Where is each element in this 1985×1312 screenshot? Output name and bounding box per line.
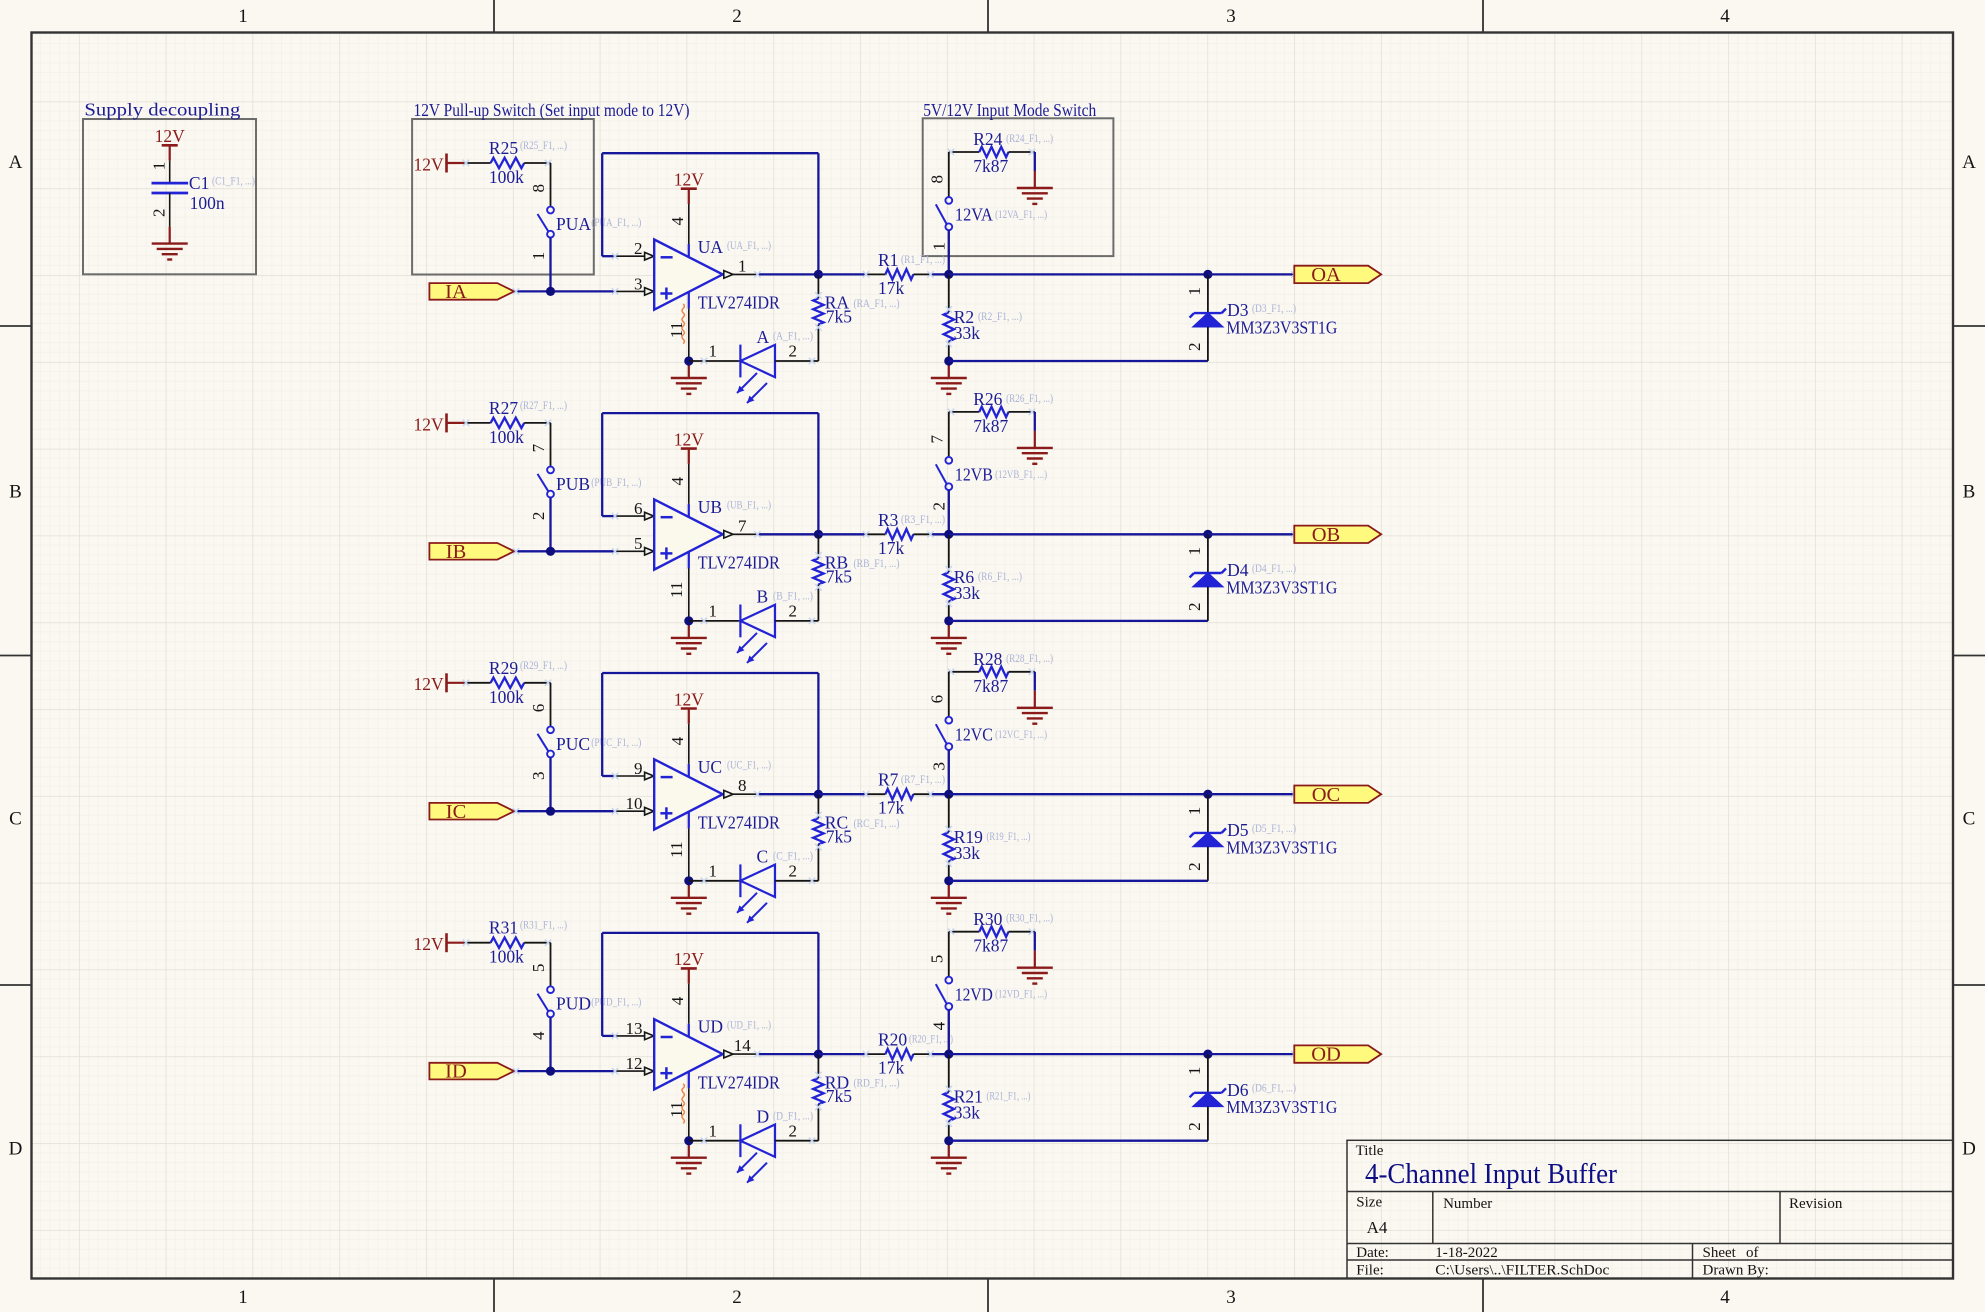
svg-text:(RB_F1, ...): (RB_F1, ...) xyxy=(854,556,900,570)
junction: pin 11 / diode / ground xyxy=(684,876,693,885)
svg-text:D: D xyxy=(757,1107,770,1127)
svg-text:1: 1 xyxy=(708,602,717,621)
svg-text:1: 1 xyxy=(529,252,548,261)
svg-text:R20: R20 xyxy=(878,1030,907,1050)
svg-text:(R24_F1, ...): (R24_F1, ...) xyxy=(1006,131,1053,145)
UB pin 4 wire xyxy=(688,464,690,504)
svg-text:12: 12 xyxy=(626,1054,643,1073)
svg-text:17k: 17k xyxy=(878,798,905,818)
svg-text:5: 5 xyxy=(529,964,548,973)
svg-text:17k: 17k xyxy=(878,278,905,298)
wire: feedback loop xyxy=(602,673,818,794)
UB output pin xyxy=(724,531,733,539)
power port 12V (pull-up source, channel B) xyxy=(414,413,464,434)
svg-text:B: B xyxy=(757,587,769,607)
svg-text:(B_F1, ...): (B_F1, ...) xyxy=(773,589,813,603)
switch PUD xyxy=(538,986,554,1017)
wire: R24 to ground xyxy=(1034,152,1036,171)
svg-text:17k: 17k xyxy=(878,1058,905,1078)
svg-text:33k: 33k xyxy=(954,1103,981,1123)
svg-text:(R29_F1, ...): (R29_F1, ...) xyxy=(520,658,567,672)
svg-text:(R3_F1, ...): (R3_F1, ...) xyxy=(901,512,945,526)
svg-text:13: 13 xyxy=(626,1019,643,1038)
svg-text:33k: 33k xyxy=(954,583,981,603)
svg-text:(R26_F1, ...): (R26_F1, ...) xyxy=(1006,391,1053,405)
svg-text:11: 11 xyxy=(667,582,686,598)
junction: input net xyxy=(546,547,555,556)
svg-text:7: 7 xyxy=(529,443,548,452)
switch PUA xyxy=(538,207,554,238)
svg-text:1: 1 xyxy=(1185,1067,1204,1076)
svg-text:3: 3 xyxy=(929,762,948,771)
power port 12V (UC supply) xyxy=(674,689,705,724)
svg-text:6: 6 xyxy=(927,695,946,704)
svg-text:(12VB_F1, ...): (12VB_F1, ...) xyxy=(995,467,1047,481)
junction: divider/ground node xyxy=(944,876,953,885)
junction: output/feedback node xyxy=(814,790,823,799)
svg-text:4: 4 xyxy=(668,736,687,745)
resistor R24 xyxy=(948,147,1035,157)
svg-text:(R19_F1, ...): (R19_F1, ...) xyxy=(987,829,1031,843)
svg-text:Supply decoupling: Supply decoupling xyxy=(84,100,240,120)
svg-text:(R30_F1, ...): (R30_F1, ...) xyxy=(1006,911,1053,925)
zener diode D4 xyxy=(1190,534,1226,621)
svg-text:of: of xyxy=(1746,1245,1759,1261)
ground (op-amp UB pin 11) xyxy=(671,621,707,654)
svg-text:Drawn By:: Drawn By: xyxy=(1703,1263,1769,1279)
svg-text:2: 2 xyxy=(789,602,798,621)
svg-text:UD: UD xyxy=(698,1017,723,1037)
title block frame xyxy=(1347,1140,1953,1278)
svg-text:2: 2 xyxy=(1185,602,1204,611)
junction: output/feedback node xyxy=(814,530,823,539)
svg-text:A: A xyxy=(757,327,770,347)
switch 12VA xyxy=(936,197,952,230)
svg-text:(R1_F1, ...): (R1_F1, ...) xyxy=(901,252,945,266)
wire: zener node to output port xyxy=(1208,1053,1294,1055)
wire: output net xyxy=(949,1053,1208,1055)
wire: feedback loop xyxy=(602,153,818,274)
svg-text:100n: 100n xyxy=(190,193,225,213)
UD pin 4 wire xyxy=(688,984,690,1024)
resistor R29 xyxy=(463,678,551,688)
resistor R19 xyxy=(944,794,954,881)
svg-text:(D3_F1, ...): (D3_F1, ...) xyxy=(1252,301,1296,315)
wire: switch to input net xyxy=(549,238,551,292)
svg-text:12VD: 12VD xyxy=(955,984,993,1004)
svg-text:IA: IA xyxy=(445,281,467,303)
resistor R21 xyxy=(944,1054,954,1141)
wire: pull-up resistor to switch pin xyxy=(550,943,552,987)
svg-text:(UB_F1, ...): (UB_F1, ...) xyxy=(727,498,771,512)
svg-text:IC: IC xyxy=(446,801,467,823)
resistor R2 xyxy=(944,274,954,361)
wire: op-amp output to feedback junction xyxy=(757,533,818,535)
junction: zener node xyxy=(1203,530,1212,539)
svg-text:33k: 33k xyxy=(954,323,981,343)
svg-text:A4: A4 xyxy=(1367,1218,1388,1237)
svg-text:4: 4 xyxy=(668,476,687,485)
svg-text:2: 2 xyxy=(1185,1122,1204,1131)
svg-text:A: A xyxy=(9,152,23,173)
capacitor C1 pin 2 wire xyxy=(169,193,171,227)
resistor RA xyxy=(813,274,823,361)
wire: R28 to mode switch xyxy=(948,672,950,717)
op-amp UB xyxy=(654,499,723,569)
svg-text:MM3Z3V3ST1G: MM3Z3V3ST1G xyxy=(1226,577,1337,597)
svg-text:MM3Z3V3ST1G: MM3Z3V3ST1G xyxy=(1226,1097,1337,1117)
wire: ground node to diode D xyxy=(689,1140,741,1142)
svg-text:Title: Title xyxy=(1356,1143,1384,1159)
ground (op-amp UD pin 11) xyxy=(671,1141,707,1174)
svg-text:(R21_F1, ...): (R21_F1, ...) xyxy=(987,1089,1031,1103)
wire: ground node to diode C xyxy=(689,880,741,882)
UA pin 11 wire xyxy=(688,309,690,361)
wire: R28 to ground xyxy=(1034,672,1036,691)
wire: divider node to zener anode xyxy=(949,360,1208,362)
svg-text:12V: 12V xyxy=(414,414,445,434)
svg-text:(RC_F1, ...): (RC_F1, ...) xyxy=(854,816,900,830)
svg-text:PUD: PUD xyxy=(556,994,591,1014)
svg-text:1: 1 xyxy=(238,6,248,27)
svg-text:3: 3 xyxy=(1226,1287,1236,1308)
wire: op-amp output to feedback junction xyxy=(757,273,818,275)
junction: input net xyxy=(546,1067,555,1076)
wire: diode C to RC xyxy=(775,880,818,882)
svg-text:(RD_F1, ...): (RD_F1, ...) xyxy=(854,1076,900,1090)
svg-text:TLV274IDR: TLV274IDR xyxy=(698,553,780,573)
wire: divider node to zener anode xyxy=(949,1140,1208,1142)
svg-text:9: 9 xyxy=(634,759,643,778)
junction: input net xyxy=(546,287,555,296)
wire: input port to op-amp + xyxy=(514,1070,615,1072)
resistor R31 xyxy=(463,938,551,948)
svg-text:12V: 12V xyxy=(414,934,445,954)
svg-text:5: 5 xyxy=(927,955,946,964)
zone separators (left) xyxy=(0,326,32,985)
ground (R2) xyxy=(931,361,967,394)
svg-text:12V: 12V xyxy=(674,429,705,449)
svg-text:(PUA_F1, ...): (PUA_F1, ...) xyxy=(591,215,641,229)
svg-text:2: 2 xyxy=(732,6,742,27)
zone separators (right) xyxy=(1953,326,1985,985)
diode B (LED) xyxy=(737,605,775,663)
wire: feedback loop xyxy=(602,933,818,1054)
svg-text:PUA: PUA xyxy=(556,214,591,234)
svg-text:R1: R1 xyxy=(878,250,898,270)
pin: op-amp non-inverting input xyxy=(615,290,645,292)
port OB (output) xyxy=(1294,524,1381,546)
svg-text:1: 1 xyxy=(238,1287,248,1308)
resistor RD xyxy=(813,1054,823,1141)
svg-text:(C1_F1, ...): (C1_F1, ...) xyxy=(212,174,255,188)
switch 12VD xyxy=(936,977,952,1010)
svg-text:(12VC_F1, ...): (12VC_F1, ...) xyxy=(995,727,1047,741)
port IC (input) xyxy=(429,801,514,823)
resistor R30 xyxy=(948,927,1035,937)
svg-text:5V/12V Input Mode Switch: 5V/12V Input Mode Switch xyxy=(923,100,1096,120)
svg-text:D: D xyxy=(9,1139,23,1160)
svg-text:100k: 100k xyxy=(489,167,524,187)
svg-text:A: A xyxy=(1962,152,1976,173)
resistor R25 xyxy=(463,158,551,168)
svg-text:R28: R28 xyxy=(973,649,1002,669)
junction: mode switch node xyxy=(944,530,953,539)
resistor R26 xyxy=(948,407,1035,417)
pin: op-amp inverting input xyxy=(615,255,645,257)
junction: pin 11 / diode / ground xyxy=(684,1136,693,1145)
zone separators (top) xyxy=(494,0,1483,33)
svg-text:4-Channel Input Buffer: 4-Channel Input Buffer xyxy=(1365,1158,1617,1190)
svg-text:C: C xyxy=(1963,809,1976,830)
svg-text:7: 7 xyxy=(927,434,946,443)
svg-text:R7: R7 xyxy=(878,770,899,790)
power port 12V (pull-up source, channel D) xyxy=(414,933,464,954)
svg-text:(D6_F1, ...): (D6_F1, ...) xyxy=(1252,1081,1296,1095)
capacitor C1 xyxy=(152,183,189,193)
svg-text:MM3Z3V3ST1G: MM3Z3V3ST1G xyxy=(1226,318,1337,338)
svg-text:C:\Users\..\FILTER.SchDoc: C:\Users\..\FILTER.SchDoc xyxy=(1435,1263,1609,1279)
svg-text:(PUD_F1, ...): (PUD_F1, ...) xyxy=(591,995,641,1009)
svg-text:(R7_F1, ...): (R7_F1, ...) xyxy=(901,772,945,786)
svg-text:7k5: 7k5 xyxy=(826,566,853,586)
svg-text:12V Pull-up Switch (Set input: 12V Pull-up Switch (Set input mode to 12… xyxy=(414,100,690,120)
svg-text:7: 7 xyxy=(738,516,747,535)
UC pin 11 wire xyxy=(688,828,690,880)
wire: R30 to ground xyxy=(1034,932,1036,951)
resistor RC xyxy=(813,794,823,881)
annotation box: supply decoupling section xyxy=(83,119,256,274)
svg-text:R26: R26 xyxy=(973,389,1002,409)
svg-text:1: 1 xyxy=(708,342,717,361)
UA pin 4 wire xyxy=(688,204,690,244)
svg-text:(A_F1, ...): (A_F1, ...) xyxy=(773,329,813,343)
zener diode D3 xyxy=(1190,274,1226,361)
svg-text:14: 14 xyxy=(734,1036,752,1055)
svg-text:(PUB_F1, ...): (PUB_F1, ...) xyxy=(591,475,641,489)
svg-text:3: 3 xyxy=(529,772,548,781)
svg-text:D: D xyxy=(1962,1139,1976,1160)
svg-text:2: 2 xyxy=(529,512,548,521)
ground (op-amp UA pin 11) xyxy=(671,361,707,394)
wire: mode switch to output net xyxy=(948,750,950,794)
svg-text:R31: R31 xyxy=(489,918,518,938)
junction: output/feedback node xyxy=(814,1050,823,1059)
svg-text:2: 2 xyxy=(1185,343,1204,352)
svg-text:(UD_F1, ...): (UD_F1, ...) xyxy=(727,1018,771,1032)
svg-text:1: 1 xyxy=(1185,547,1204,556)
svg-text:Number: Number xyxy=(1443,1196,1492,1212)
svg-text:(UC_F1, ...): (UC_F1, ...) xyxy=(727,758,771,772)
svg-text:Date:: Date: xyxy=(1356,1245,1388,1261)
svg-text:12V: 12V xyxy=(414,674,445,694)
UA output pin xyxy=(724,271,733,279)
junction: mode switch node xyxy=(944,790,953,799)
svg-text:(R27_F1, ...): (R27_F1, ...) xyxy=(520,398,567,412)
svg-text:2: 2 xyxy=(929,502,948,511)
resistor R1 xyxy=(818,269,948,279)
svg-text:4: 4 xyxy=(668,996,687,1005)
UC pin 4 wire xyxy=(688,724,690,764)
wire: mode switch to output net xyxy=(948,230,950,274)
diode D (LED) xyxy=(737,1124,775,1182)
pin: op-amp inverting input xyxy=(615,1035,645,1037)
wire: R26 to mode switch xyxy=(948,412,950,457)
svg-text:Sheet: Sheet xyxy=(1703,1245,1737,1261)
svg-text:C1: C1 xyxy=(189,173,209,193)
svg-text:100k: 100k xyxy=(489,947,524,967)
op-amp UC xyxy=(654,759,723,829)
svg-text:OC: OC xyxy=(1312,784,1340,806)
svg-text:12VB: 12VB xyxy=(955,465,993,485)
wire: ground node to diode A xyxy=(689,360,741,362)
svg-text:12V: 12V xyxy=(674,689,705,709)
junction: pin 11 / diode / ground xyxy=(684,616,693,625)
svg-text:6: 6 xyxy=(529,704,548,713)
svg-text:8: 8 xyxy=(927,175,946,184)
capacitor C1 pin 1 wire xyxy=(169,161,171,184)
svg-text:File:: File: xyxy=(1356,1263,1384,1279)
svg-text:4: 4 xyxy=(929,1021,948,1030)
junction: pin 11 / diode / ground xyxy=(684,356,693,365)
svg-text:1: 1 xyxy=(1185,807,1204,816)
svg-text:2: 2 xyxy=(634,239,643,258)
ground (op-amp UC pin 11) xyxy=(671,881,707,914)
wire: zener node to output port xyxy=(1208,533,1294,535)
wire: mode switch to output net xyxy=(948,1010,950,1054)
svg-text:OA: OA xyxy=(1311,264,1341,286)
svg-text:1: 1 xyxy=(929,242,948,251)
svg-text:12V: 12V xyxy=(674,949,705,969)
wire: switch to input net xyxy=(549,1017,551,1071)
svg-text:4: 4 xyxy=(1720,1287,1730,1308)
svg-text:7k87: 7k87 xyxy=(973,676,1008,696)
svg-text:12V: 12V xyxy=(414,154,445,174)
resistor R28 xyxy=(948,667,1035,677)
svg-text:1: 1 xyxy=(708,861,717,880)
power port 12V (pull-up source, channel A) xyxy=(414,154,464,175)
svg-text:12VA: 12VA xyxy=(955,205,993,225)
power port 12V (C1) xyxy=(155,126,186,161)
annotation box: 5V/12V input mode switch section xyxy=(923,118,1114,256)
svg-text:(PUC_F1, ...): (PUC_F1, ...) xyxy=(591,735,641,749)
junction: zener node xyxy=(1203,1050,1212,1059)
svg-text:R29: R29 xyxy=(489,658,518,678)
resistor R27 xyxy=(463,418,551,428)
no-ERC marker (orange squiggle) xyxy=(682,1084,685,1124)
wire: diode B to RB xyxy=(775,620,818,622)
wire: divider node to zener anode xyxy=(949,620,1208,622)
svg-text:2: 2 xyxy=(789,1121,798,1140)
svg-text:R27: R27 xyxy=(489,398,518,418)
svg-text:B: B xyxy=(1963,482,1976,503)
svg-text:5: 5 xyxy=(634,534,643,553)
pin: op-amp inverting input xyxy=(615,775,645,777)
svg-text:R3: R3 xyxy=(878,510,899,530)
svg-text:(D_F1, ...): (D_F1, ...) xyxy=(773,1108,813,1122)
svg-text:IB: IB xyxy=(446,541,467,563)
pin: op-amp non-inverting input xyxy=(615,1070,645,1072)
wire: pull-up resistor to switch pin xyxy=(550,683,552,727)
wire: mode switch to output net xyxy=(948,490,950,534)
svg-text:C: C xyxy=(757,847,769,867)
svg-text:C: C xyxy=(9,809,22,830)
port OC (output) xyxy=(1294,784,1381,806)
svg-text:R24: R24 xyxy=(973,129,1002,149)
svg-text:UC: UC xyxy=(698,757,722,777)
resistor R3 xyxy=(818,529,948,539)
svg-text:R30: R30 xyxy=(973,909,1002,929)
zener diode D5 xyxy=(1190,794,1226,881)
svg-text:10: 10 xyxy=(626,794,643,813)
svg-text:12V: 12V xyxy=(155,126,186,146)
junction: divider/ground node xyxy=(944,356,953,365)
svg-text:ID: ID xyxy=(445,1061,467,1083)
wire: feedback loop xyxy=(602,413,818,534)
svg-text:(12VA_F1, ...): (12VA_F1, ...) xyxy=(995,207,1047,221)
svg-text:(R6_F1, ...): (R6_F1, ...) xyxy=(978,569,1022,583)
switch 12VB xyxy=(936,457,952,490)
diode C (LED) xyxy=(737,864,775,922)
svg-text:(UA_F1, ...): (UA_F1, ...) xyxy=(727,238,771,252)
svg-text:7k87: 7k87 xyxy=(973,936,1008,956)
svg-text:6: 6 xyxy=(634,499,643,518)
resistor R6 xyxy=(944,534,954,621)
svg-text:2: 2 xyxy=(150,209,169,218)
svg-text:7k5: 7k5 xyxy=(826,1086,853,1106)
op-amp UA xyxy=(654,240,723,310)
svg-text:12VC: 12VC xyxy=(955,725,993,745)
svg-text:Revision: Revision xyxy=(1789,1196,1843,1212)
svg-text:OD: OD xyxy=(1311,1044,1341,1066)
pin: op-amp inverting input xyxy=(615,515,645,517)
UC output pin xyxy=(724,790,733,798)
svg-text:PUB: PUB xyxy=(556,474,590,494)
resistor R20 xyxy=(818,1049,948,1059)
power port 12V (pull-up source, channel C) xyxy=(414,673,464,694)
svg-text:(D4_F1, ...): (D4_F1, ...) xyxy=(1252,561,1296,575)
svg-text:1: 1 xyxy=(1185,287,1204,296)
svg-text:UB: UB xyxy=(698,497,722,517)
wire: diode A to RA xyxy=(775,360,818,362)
junction: divider/ground node xyxy=(944,1136,953,1145)
switch PUB xyxy=(538,467,554,498)
svg-text:PUC: PUC xyxy=(556,734,590,754)
svg-text:UA: UA xyxy=(698,237,724,257)
svg-text:1: 1 xyxy=(150,162,169,171)
wire: input port to op-amp + xyxy=(514,810,615,812)
wire: diode D to RD xyxy=(775,1140,818,1142)
pin: op-amp non-inverting input xyxy=(615,810,645,812)
junction: input net xyxy=(546,807,555,816)
power port 12V (UD supply) xyxy=(674,949,705,984)
svg-text:TLV274IDR: TLV274IDR xyxy=(698,812,780,832)
switch PUC xyxy=(538,726,554,757)
svg-text:(12VD_F1, ...): (12VD_F1, ...) xyxy=(995,987,1047,1001)
junction: divider/ground node xyxy=(944,616,953,625)
port IB (input) xyxy=(429,541,514,563)
zener diode D6 xyxy=(1190,1054,1226,1141)
wire: R24 to mode switch xyxy=(948,152,950,197)
wire: output net xyxy=(949,273,1208,275)
power port 12V (UA supply) xyxy=(674,170,705,205)
wire: R30 to mode switch xyxy=(948,932,950,977)
no-ERC marker (orange squiggle) xyxy=(682,304,685,344)
svg-text:8: 8 xyxy=(529,184,548,193)
wire: input port to op-amp + xyxy=(514,550,615,552)
svg-text:12V: 12V xyxy=(674,170,705,190)
annotation box: 12V pull-up switch section xyxy=(412,119,594,275)
